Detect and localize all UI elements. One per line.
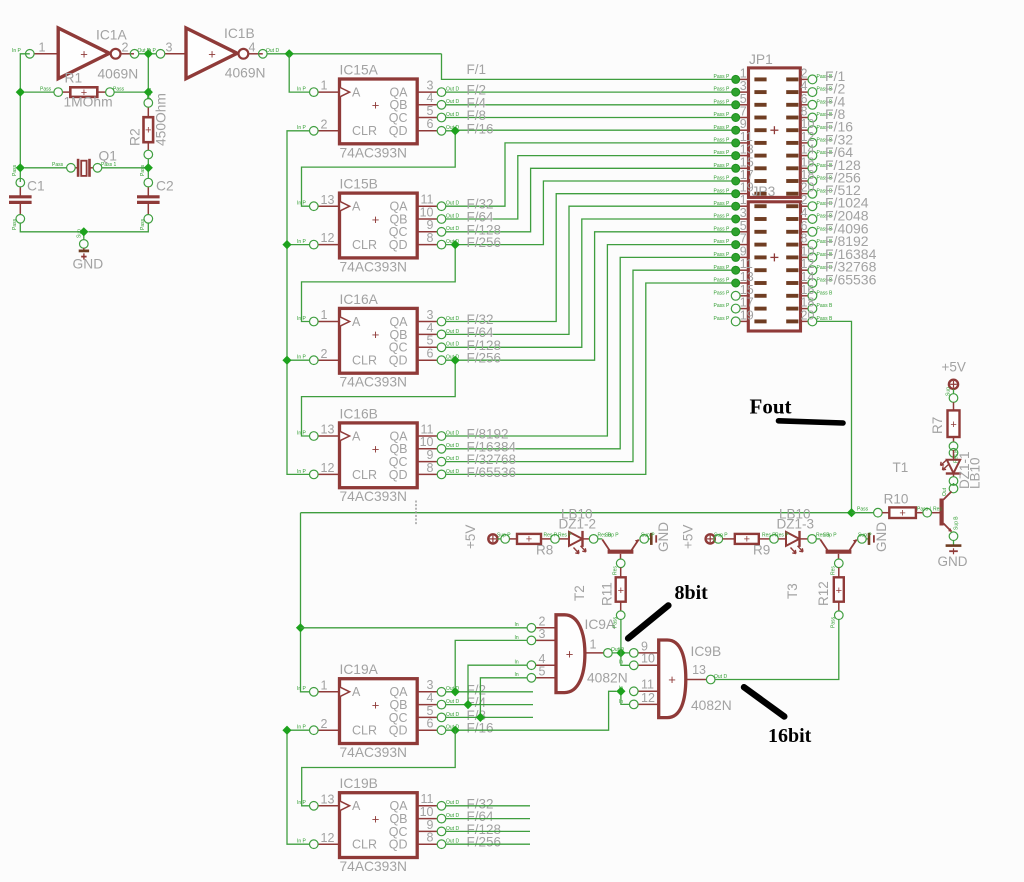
svg-text:+5V: +5V <box>681 525 696 549</box>
pin 5 of JP3 <box>714 219 749 236</box>
svg-text:IC19A: IC19A <box>340 662 379 677</box>
resistor R9 <box>714 533 778 546</box>
svg-text:Out D: Out D <box>446 469 459 475</box>
pin 12 of JP3 <box>801 257 834 274</box>
svg-text:74AC393N: 74AC393N <box>340 489 408 504</box>
svg-text:2: 2 <box>122 41 129 55</box>
svg-text:Sup: Sup <box>946 387 952 396</box>
svg-text:Out D: Out D <box>446 213 459 219</box>
wire node down to R1/R2 <box>147 54 149 92</box>
svg-text:Out D: Out D <box>446 430 459 436</box>
svg-text:Out D: Out D <box>446 125 459 131</box>
transistor T2 <box>598 533 649 568</box>
svg-text:R2: R2 <box>128 128 143 146</box>
svg-text:IC9A: IC9A <box>585 617 616 632</box>
value 74AC393N of IC16B <box>340 489 408 504</box>
annotation line for 8bit <box>628 605 668 638</box>
svg-text:10: 10 <box>641 652 655 666</box>
svg-text:JP3: JP3 <box>752 184 776 199</box>
label C2 <box>156 179 174 194</box>
svg-text:+: + <box>526 534 532 546</box>
wire IC9B pin11/12 tie <box>621 691 630 704</box>
net label F/32 at header <box>825 131 853 147</box>
value 74AC393N of IC15B <box>340 259 408 274</box>
ground GND of T1 <box>946 541 962 555</box>
annotation Fout <box>750 395 792 419</box>
label +5V of R7 branch <box>942 360 966 375</box>
wire F/4 riser to IC9A pin4 <box>468 665 527 704</box>
wire C1 bottom to GND row <box>20 223 79 232</box>
value 74AC393N of IC16A <box>340 375 408 390</box>
svg-text:IC9B: IC9B <box>691 644 722 659</box>
svg-text:Pass P: Pass P <box>714 138 731 144</box>
wire GND stub <box>83 232 85 240</box>
svg-text:QD: QD <box>389 354 408 368</box>
svg-text:GND: GND <box>874 522 889 552</box>
svg-text:2: 2 <box>321 717 328 731</box>
svg-text:QD: QD <box>389 838 408 852</box>
annotation 16bit <box>768 725 812 747</box>
svg-text:IC1B: IC1B <box>224 26 255 41</box>
svg-text:Pass: Pass <box>147 87 153 99</box>
value 4082N of IC9B <box>691 698 732 713</box>
svg-text:8bit: 8bit <box>675 582 709 604</box>
svg-text:Pass P: Pass P <box>714 239 731 245</box>
svg-text:C1: C1 <box>27 179 45 194</box>
supply +5V for R7 <box>949 380 958 389</box>
svg-text:R8: R8 <box>536 543 553 558</box>
svg-text:Out D: Out D <box>446 443 459 449</box>
connector JP3 <box>748 202 800 331</box>
label IC1A <box>96 28 127 43</box>
pin 12 of IC9B <box>619 691 659 709</box>
svg-text:A: A <box>352 429 361 443</box>
svg-text:Pass P: Pass P <box>714 316 731 322</box>
svg-text:IC15B: IC15B <box>340 177 378 192</box>
net label F/8 at header <box>825 106 845 122</box>
net label F/2 at header <box>825 81 845 97</box>
svg-text:Sup P: Sup P <box>858 533 872 539</box>
net label F/32 <box>467 312 494 327</box>
svg-text:Pass I: Pass I <box>917 506 931 512</box>
value 1MOhm of R1 <box>64 95 113 110</box>
label R10 <box>884 492 909 507</box>
pin 1 of IC9A output <box>585 638 625 658</box>
counter IC16B 74AC393N <box>297 422 459 487</box>
pin 6 of JP1 <box>800 92 833 109</box>
svg-text:Pass P: Pass P <box>714 87 731 93</box>
junction Q1/R2/C2 node <box>144 163 153 172</box>
junction F/256 at IC15B QD <box>451 240 460 249</box>
wire clock node to F/1 corner <box>289 53 441 55</box>
svg-text:2: 2 <box>321 117 328 131</box>
label GND oscillator <box>73 257 104 272</box>
junction F/16 at IC15A QD <box>451 126 460 135</box>
svg-text:4082N: 4082N <box>587 671 628 686</box>
svg-text:CLR: CLR <box>352 124 377 138</box>
svg-text:4069N: 4069N <box>225 66 266 81</box>
svg-text:IC16B: IC16B <box>340 406 378 421</box>
svg-text:F/256: F/256 <box>467 835 502 850</box>
net label F/512 at header <box>825 182 861 198</box>
svg-text:5: 5 <box>427 104 434 118</box>
pin 1 of JP1 <box>714 66 749 83</box>
wire node to IC9B pin10 <box>621 653 630 665</box>
svg-text:IC19B: IC19B <box>340 776 378 791</box>
pin 9 of IC9B <box>619 639 659 657</box>
svg-text:Res: Res <box>831 566 837 575</box>
junction left rail Q1 <box>16 163 25 172</box>
svg-text:Out D: Out D <box>446 239 459 245</box>
svg-text:74AC393N: 74AC393N <box>340 145 408 160</box>
svg-text:Out: Out <box>942 487 948 496</box>
resistor R11 <box>613 566 626 628</box>
svg-text:R12: R12 <box>816 581 831 606</box>
svg-text:Out D: Out D <box>266 48 279 54</box>
svg-text:13: 13 <box>321 193 335 207</box>
wire CLR to IC16A pin2 <box>287 359 310 361</box>
svg-text:F/256: F/256 <box>467 351 502 366</box>
annotation line for 16bit <box>744 687 784 716</box>
svg-text:Out D: Out D <box>446 99 459 105</box>
crystal Q1 <box>52 159 117 177</box>
net label F/65536 at header <box>825 272 877 288</box>
svg-text:Pass P: Pass P <box>714 252 731 258</box>
wire net F/16384 <box>446 257 740 448</box>
svg-text:+5V: +5V <box>942 360 966 375</box>
svg-text:Pass: Pass <box>12 218 18 230</box>
counter IC19B 74AC393N <box>297 792 459 857</box>
svg-text:A: A <box>352 86 361 100</box>
svg-text:1: 1 <box>590 638 597 652</box>
svg-text:+: + <box>372 811 380 826</box>
pin 13 of IC9B output <box>686 663 728 684</box>
svg-text:Res P: Res P <box>544 533 558 539</box>
net label F/8192 at header <box>825 233 869 249</box>
value 450Ohm of R2 <box>154 93 169 146</box>
label IC19B <box>340 776 378 791</box>
wire T1 collector to LED <box>953 483 955 485</box>
svg-text:In: In <box>515 622 519 628</box>
value 74AC393N of IC19A <box>340 745 408 760</box>
label R2 <box>128 128 143 146</box>
svg-text:Pass P: Pass P <box>714 226 731 232</box>
net label F/32768 at header <box>825 259 877 275</box>
svg-text:CLR: CLR <box>352 838 377 852</box>
svg-text:4069N: 4069N <box>98 67 139 82</box>
label DZ1-1 <box>957 451 972 489</box>
svg-text:1: 1 <box>321 79 328 93</box>
net label F/8 <box>467 708 487 723</box>
svg-text:R9: R9 <box>753 543 770 558</box>
wire net F/512 <box>446 194 740 322</box>
junction IC1A output node <box>144 49 153 58</box>
wire net F/8 <box>446 117 740 119</box>
annotation 8bit <box>675 582 709 604</box>
svg-text:QD: QD <box>389 468 408 482</box>
pin 17 of JP3 <box>714 296 754 313</box>
svg-text:QB: QB <box>389 328 407 342</box>
label IC9B <box>691 644 722 659</box>
svg-text:Pass: Pass <box>113 87 125 93</box>
junction GND node <box>79 227 88 236</box>
net label F/64 at header <box>825 144 853 160</box>
net label F/128 <box>467 338 502 353</box>
svg-text:11: 11 <box>641 678 654 692</box>
svg-text:+: + <box>372 442 380 457</box>
junction R1/R2 node <box>144 88 153 97</box>
label LB10 of DZ1-1 <box>968 457 983 489</box>
label R7 <box>930 417 945 434</box>
junction CLR at IC16A <box>282 356 291 365</box>
svg-text:2: 2 <box>321 347 328 361</box>
pin 1 of IC1A <box>12 41 46 59</box>
svg-text:JP1: JP1 <box>749 52 773 67</box>
label R11 <box>600 582 615 606</box>
svg-text:LB10: LB10 <box>968 457 983 489</box>
resistor R10 <box>857 506 942 519</box>
label IC15B <box>340 177 378 192</box>
capacitor C2 <box>137 164 160 230</box>
svg-text:Sup P: Sup P <box>714 533 728 539</box>
label JP1 <box>749 52 773 67</box>
svg-text:8: 8 <box>427 231 434 245</box>
counter IC16A 74AC393N <box>297 308 459 373</box>
wire F/2 riser to IC9A pin3 <box>455 640 527 691</box>
wire left rail R1 to Q1 <box>19 92 21 168</box>
label T2 <box>572 585 587 601</box>
pin 2 of JP1 <box>800 66 833 83</box>
net label F/2 <box>467 83 487 98</box>
svg-text:F/1: F/1 <box>467 62 487 77</box>
svg-text:Pass: Pass <box>857 506 869 512</box>
resistor R7 <box>946 387 960 463</box>
junction clock node after IC1B <box>285 49 294 58</box>
pin 9 of JP3 <box>714 244 749 261</box>
svg-text:1MOhm: 1MOhm <box>64 95 113 110</box>
pin 2 of IC9A <box>515 614 557 632</box>
wire CLR bus IC15A-IC16B <box>287 131 310 475</box>
resistor R12 <box>831 566 844 628</box>
svg-text:Sup B: Sup B <box>954 516 960 530</box>
pin 10 of IC9B <box>619 652 659 670</box>
svg-text:3: 3 <box>427 308 434 322</box>
svg-text:CLR: CLR <box>352 468 377 482</box>
wire net F/2048 <box>446 219 740 347</box>
counter IC19A 74AC393N <box>297 678 459 743</box>
svg-text:Sup P: Sup P <box>497 533 511 539</box>
value 4069N of IC1B <box>225 66 266 81</box>
svg-text:Q1: Q1 <box>99 149 117 164</box>
net label F/4 at header <box>825 93 845 109</box>
pin 3 of JP1 <box>714 79 749 96</box>
svg-text:QC: QC <box>389 341 408 355</box>
pin 3 of JP3 <box>714 206 749 223</box>
svg-text:Out D: Out D <box>446 316 459 322</box>
svg-text:R11: R11 <box>600 582 615 606</box>
svg-text:13: 13 <box>321 792 335 806</box>
svg-text:F/16: F/16 <box>467 121 494 136</box>
junction IC9A output <box>616 648 625 657</box>
svg-text:Out D: Out D <box>446 329 459 335</box>
net label F/1 <box>467 62 487 77</box>
net label F/128 <box>467 222 502 237</box>
svg-text:In: In <box>515 635 519 641</box>
svg-text:DZ1-3: DZ1-3 <box>777 517 815 532</box>
label IC16A <box>340 292 379 307</box>
label +5V of T2 branch <box>463 525 478 549</box>
junction IC9B pin11 node <box>616 687 625 696</box>
pin 1 of JP3 <box>714 193 749 210</box>
pin 4 of IC1B <box>249 41 280 59</box>
pin 4 of JP1 <box>800 79 833 96</box>
svg-text:GND: GND <box>656 522 671 552</box>
net label F/8 <box>467 108 487 123</box>
svg-text:+: + <box>566 647 574 662</box>
svg-text:+: + <box>618 585 624 597</box>
svg-text:C2: C2 <box>156 179 174 194</box>
net label F/16 <box>467 121 494 136</box>
svg-text:+: + <box>899 508 905 520</box>
junction F/2 at IC19A QA <box>451 687 460 696</box>
svg-text:12: 12 <box>321 831 335 845</box>
counter IC15A 74AC393N <box>297 79 459 144</box>
svg-text:R7: R7 <box>930 417 945 434</box>
svg-text:Res: Res <box>613 566 619 575</box>
label C1 <box>27 179 45 194</box>
junction CLR at IC19A <box>282 726 291 735</box>
svg-text:6: 6 <box>427 717 434 731</box>
svg-text:Sup P: Sup P <box>605 533 619 539</box>
wire F/16 to IC15B clock <box>302 131 456 206</box>
wire Fout node to R10 <box>852 512 874 514</box>
wire net F/4 bottom <box>446 704 533 706</box>
net label F/256 <box>467 351 502 366</box>
svg-text:1: 1 <box>321 308 328 322</box>
svg-text:In P: In P <box>12 48 22 54</box>
svg-text:F/65536: F/65536 <box>467 465 517 480</box>
wire R2 bottom to Q1 node <box>147 159 149 168</box>
wire Fout bus <box>301 512 852 514</box>
wire net F/64 <box>446 156 740 219</box>
svg-text:F/16: F/16 <box>467 721 494 736</box>
annotation line for Fout <box>779 421 844 423</box>
wire IC1B out to clock node <box>267 53 289 55</box>
resistor R1 <box>40 87 125 100</box>
pin 8 of JP1 <box>800 105 833 122</box>
svg-text:Res P: Res P <box>775 533 789 539</box>
net label F/128 <box>467 822 502 837</box>
svg-text:In: In <box>515 672 519 678</box>
value 4069N of IC1A <box>98 67 139 82</box>
LED DZ1-1 <box>941 449 962 486</box>
svg-text:+: + <box>950 419 956 431</box>
wire Q1 row right <box>102 167 149 169</box>
wire 16bit net IC9B out to R12 <box>715 620 839 680</box>
wire C2 top to Q1 node <box>147 168 149 179</box>
supply +5V for T2 branch <box>488 534 497 543</box>
svg-text:DZ1-2: DZ1-2 <box>559 517 597 532</box>
svg-text:5: 5 <box>539 664 546 678</box>
inverter IC1A <box>34 28 134 79</box>
ground GND oscillator <box>77 229 90 260</box>
label T3 <box>785 583 800 599</box>
label Q1 <box>99 149 117 164</box>
svg-text:T1: T1 <box>893 460 909 475</box>
svg-text:6: 6 <box>427 347 434 361</box>
pin 12 of JP1 <box>800 130 833 147</box>
capacitor C1 <box>9 164 32 230</box>
counter IC15B 74AC393N <box>297 193 459 258</box>
label JP3 <box>752 184 776 199</box>
svg-text:T2: T2 <box>572 585 587 601</box>
wire F/256 to IC16A clock <box>302 245 456 322</box>
svg-text:74AC393N: 74AC393N <box>340 745 408 760</box>
svg-text:In P: In P <box>297 239 307 245</box>
svg-text:+: + <box>372 327 380 342</box>
transistor T1 <box>932 484 960 540</box>
svg-text:Pass P: Pass P <box>714 112 731 118</box>
wire left rail Q1 to C1 <box>19 168 21 182</box>
ground GND of T3 <box>858 533 874 545</box>
svg-text:19: 19 <box>740 308 754 322</box>
svg-text:+: + <box>372 697 380 712</box>
label IC19A <box>340 662 379 677</box>
svg-text:Sup: Sup <box>77 229 83 238</box>
pin 11 of JP3 <box>714 257 753 274</box>
label DZ1-3 <box>777 517 815 532</box>
pin 14 of JP3 <box>801 270 834 287</box>
svg-text:Pass P: Pass P <box>714 188 731 194</box>
svg-text:Pass P: Pass P <box>714 163 731 169</box>
svg-text:Fout: Fout <box>750 395 792 419</box>
net label F/64 <box>467 210 495 225</box>
svg-text:Out D: Out D <box>446 355 459 361</box>
wire net F/1024 <box>446 206 740 334</box>
LED DZ1-3 <box>775 531 830 554</box>
label DZ1-2 <box>559 517 597 532</box>
pin 16 of JP3 <box>801 283 834 300</box>
svg-text:CLR: CLR <box>352 238 377 252</box>
svg-text:13: 13 <box>692 663 706 677</box>
net label F/16384 at header <box>825 246 877 262</box>
svg-text:QD: QD <box>389 124 408 138</box>
svg-text:In P: In P <box>147 48 157 54</box>
svg-text:13: 13 <box>321 423 335 437</box>
svg-text:A: A <box>352 315 361 329</box>
svg-text:4: 4 <box>249 41 256 55</box>
svg-text:74AC393N: 74AC393N <box>340 859 408 874</box>
svg-text:A: A <box>352 685 361 699</box>
pin 15 of JP1 <box>714 155 754 172</box>
svg-text:F/65536: F/65536 <box>825 272 877 288</box>
svg-text:Out D: Out D <box>446 201 459 207</box>
svg-text:Pass P: Pass P <box>714 214 731 220</box>
svg-text:Sup P: Sup P <box>641 533 655 539</box>
net label F/1024 at header <box>825 195 869 211</box>
svg-text:Pass P: Pass P <box>714 278 731 284</box>
svg-text:R1: R1 <box>65 71 83 86</box>
wire GND row to C2 <box>88 223 148 232</box>
svg-text:Pass P: Pass P <box>714 290 731 296</box>
svg-text:In P: In P <box>297 87 307 93</box>
junction CLR at IC15B <box>282 240 291 249</box>
svg-text:QC: QC <box>389 111 408 125</box>
pin 4 of IC9A <box>515 652 557 670</box>
svg-text:Out D: Out D <box>446 87 459 93</box>
svg-text:Pass P: Pass P <box>714 99 731 105</box>
svg-text:Pass P: Pass P <box>714 201 731 207</box>
